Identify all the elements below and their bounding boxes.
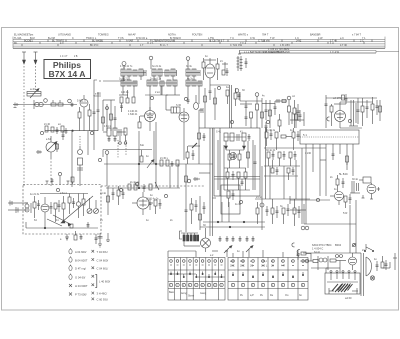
UKW cluster parts (222, 62, 229, 76)
AF detector cluster right (255, 199, 310, 230)
FM tuner dashed box (23, 185, 101, 235)
transformer hatch dark (338, 284, 353, 291)
svg-text:P LTS/MENTERDLNG: P LTS/MENTERDLNG (150, 40, 175, 43)
coupling coil L1 (34, 100, 43, 109)
IF transformer S4 (166, 107, 180, 113)
tuner top stubs (25, 181, 70, 203)
tuner mid cluster (40, 194, 88, 219)
svg-text:1 C 4 T: 1 C 4 T (60, 56, 68, 58)
svg-text:30C: 30C (240, 265, 245, 268)
wires from O to B4 (300, 144, 326, 210)
resistor R2 (51, 100, 63, 106)
B4 area extra drops (332, 144, 354, 176)
svg-text:21 40: 21 40 (44, 123, 51, 126)
svg-text:a1 4o: a1 4o (100, 192, 107, 195)
svg-text:TONREG: TONREG (98, 33, 109, 36)
parts below tuner box (60, 231, 98, 244)
wire callout to IF (99, 66, 124, 82)
svg-text:4 R: 4 R (281, 265, 285, 268)
svg-text:BC P D: BC P D (90, 44, 98, 47)
wire drops from IF row (123, 76, 199, 110)
svg-text:2 1: 2 1 (150, 42, 154, 45)
PSU right parts (376, 253, 398, 271)
cluster O row2 (264, 148, 300, 166)
wire v from tuner box to speaker bus (213, 198, 230, 222)
antenna A1 arrow (22, 52, 26, 90)
svg-text:4 240: 4 240 (305, 152, 312, 155)
lamp legend (69, 248, 110, 301)
mid band after box: vertical x108 (107, 186, 115, 215)
svg-text:BL WKBL: BL WKBL (92, 40, 103, 43)
title table (13, 37, 399, 53)
svg-text:C 04 600/: C 04 600/ (97, 258, 109, 262)
svg-text:S 30: S 30 (176, 104, 182, 107)
tube B10 (330, 192, 344, 206)
switch resistor bank (180, 231, 201, 246)
svg-text:2s 30 4s: 2s 30 4s (266, 129, 276, 132)
svg-text:2 C: 2 C (360, 40, 364, 43)
svg-text:T 04 60U: T 04 60U (97, 250, 108, 254)
svg-text:H 04 600T: H 04 600T (75, 284, 88, 288)
svg-text:B004: B004 (335, 243, 342, 247)
cluster under node 9 (256, 97, 259, 129)
table tick marks (22, 40, 372, 47)
svg-text:30 4o 21: 30 4o 21 (266, 149, 276, 152)
svg-text:D 4T mg/: D 4T mg/ (75, 267, 86, 271)
wire bus y164 (104, 163, 213, 165)
tube B8 EABC80 (132, 192, 153, 215)
FM coil right of B6 (237, 50, 248, 71)
clip symbol (297, 249, 300, 256)
AM osc coil cluster (103, 128, 127, 136)
table row2 dots (168, 273, 304, 277)
svg-text:24 C: 24 C (296, 40, 301, 43)
small parts under IF S1 (120, 90, 135, 112)
interconnect wires (119, 85, 326, 257)
svg-text:a4 60: a4 60 (345, 296, 352, 300)
PSU extra (303, 253, 352, 270)
ferrite rod coil a21 (27, 87, 41, 98)
right of box cluster O (265, 128, 300, 150)
vertical x156 (155, 122, 157, 188)
variable capacitor C1 (46, 136, 57, 158)
ratio box inner lines (214, 153, 260, 180)
wires above table (200, 221, 265, 228)
circled 189 (187, 177, 200, 183)
svg-text:A 04 600/: A 04 600/ (75, 250, 87, 254)
svg-text:4 T C: 4 T C (340, 44, 346, 47)
RC group on bus (160, 160, 179, 167)
tube B9 (367, 183, 380, 197)
oscillator cluster B2 (102, 100, 117, 131)
svg-text:TL MA: TL MA (14, 37, 22, 40)
small tube B5 (194, 99, 204, 113)
svg-text:64 41: 64 41 (314, 251, 321, 254)
svg-text:P T3 600/: P T3 600/ (75, 293, 87, 297)
svg-text:FOUTEN: FOUTEN (192, 33, 202, 36)
table circled numbers row (169, 283, 304, 286)
wire AM input bus (19, 104, 77, 106)
output parts right (333, 96, 379, 126)
tuner bottom wire (26, 222, 98, 229)
IF filter S2 row1 (152, 69, 177, 76)
svg-text:300 L: 300 L (261, 265, 268, 268)
resistor x141 mid (140, 150, 143, 162)
svg-text:4 C: 4 C (60, 42, 64, 45)
wire stubs top right (240, 101, 252, 110)
svg-text:a 64: a 64 (46, 138, 51, 141)
svg-text:21 30 s: 21 30 s (160, 157, 169, 160)
tube inner details (143, 112, 340, 207)
right mid cluster J (261, 98, 300, 128)
wire x186 connector (185, 164, 188, 196)
svg-text:4 W: 4 W (318, 37, 323, 40)
svg-text:a 21: a 21 (30, 87, 36, 91)
svg-text:1 640 41: 1 640 41 (128, 113, 138, 116)
svg-text:30 4o: 30 4o (352, 178, 359, 181)
IF filter S3 row1 (186, 69, 200, 76)
Philips nameplate (44, 60, 91, 79)
parts above tuner box (51, 172, 75, 184)
tuner diag switch (47, 215, 71, 226)
IF filter S1 row1 (121, 69, 146, 76)
svg-text:Aong: Aong (181, 292, 187, 295)
power supply section (303, 243, 397, 300)
bracket a605 (94, 80, 102, 96)
parts right of B8 (186, 146, 195, 164)
mains transformer box (325, 271, 360, 295)
PSU input parts (303, 256, 346, 265)
switch position table (168, 258, 308, 301)
svg-text:a 605: a 605 (95, 93, 102, 96)
bandswitch dashes mid (118, 140, 126, 158)
tone pot arrow 2 (246, 246, 253, 258)
wire h y95 row (119, 94, 180, 96)
svg-text:ML: ML (14, 42, 18, 45)
svg-text:C 60 93U: C 60 93U (97, 297, 108, 301)
ratio det lower RC (224, 140, 253, 190)
svg-text:T VS: T VS (118, 37, 124, 40)
detector cluster right (274, 96, 291, 125)
svg-text:3C: 3C (250, 265, 253, 268)
svg-text:3 H 46C/: 3 H 46C/ (97, 292, 108, 296)
svg-text:Bass: Bass (169, 291, 175, 294)
svg-text:1 4 004 C: 1 4 004 C (312, 247, 323, 251)
circled numbers text (170, 285, 304, 287)
B4 header box (300, 130, 359, 144)
box B3 inner extra (218, 140, 257, 190)
node 12 circled (105, 151, 109, 186)
right mid cluster extra rows (264, 160, 298, 180)
switch table row2 ticks (171, 272, 303, 279)
svg-text:4 711 41 7s: 4 711 41 7s (120, 65, 133, 68)
driver box U (359, 177, 371, 183)
densify pass (25, 66, 374, 288)
tube B4 AF711 (179, 108, 189, 131)
volume pot arrow 1 (224, 246, 232, 258)
junction mark y146 (188, 143, 200, 148)
wire h y128 top of box (199, 127, 214, 129)
capacitor bank C7 (93, 92, 100, 131)
tube B3 AF711 (138, 107, 156, 131)
tuner variable caps (87, 198, 99, 214)
caps below tuner box (98, 233, 111, 247)
svg-text:21 4o: 21 4o (256, 196, 263, 199)
svg-text:WHITE s: WHITE s (238, 33, 249, 36)
wire v x178-182 (170, 164, 178, 188)
svg-text:B 04 600T: B 04 600T (75, 258, 88, 262)
cap row above table (219, 236, 255, 242)
resistor x199 (198, 133, 206, 141)
svg-text:5L 84C: 5L 84C (339, 172, 348, 176)
svg-text:2 B: 2 B (74, 56, 78, 58)
svg-text:1 CB TW 6 T: 1 CB TW 6 T (210, 40, 225, 43)
mixer tube B1 cluster (78, 95, 91, 131)
mid band cluster x115-126 (117, 186, 125, 205)
wire v x262-302 connects (262, 148, 302, 224)
mains cable (326, 268, 340, 273)
svg-text:S 41: S 41 (216, 131, 222, 134)
wire v x320 (320, 144, 326, 196)
AF output parts Q (336, 175, 345, 192)
node 7 (68, 99, 72, 103)
svg-text:C: C (72, 37, 74, 40)
output stage top A4: tube B7 EL84 (330, 102, 346, 128)
detector wire h103 (262, 100, 275, 104)
svg-text:7 U: 7 U (230, 37, 234, 40)
tuning link dashed (101, 185, 205, 187)
text above right (263, 47, 290, 54)
svg-text:4o 21 3s: 4o 21 3s (30, 193, 40, 196)
rectifier tube B13 (349, 253, 357, 270)
svg-text:4s 2s: 4s 2s (187, 77, 194, 80)
antenna A2 arrow (34, 52, 38, 90)
wire v x210 under B6 (204, 85, 217, 128)
svg-text:B 1 L 7: B 1 L 7 (160, 44, 168, 47)
svg-text:T W: T W (270, 37, 275, 40)
vertical x199 (184, 110, 199, 164)
misc left bottom stubs (56, 131, 65, 152)
gang dashed link 2 (50, 158, 52, 186)
svg-text:3s 3s: 3s 3s (186, 65, 193, 68)
callout above S2 (149, 56, 153, 69)
wire h149 (103, 150, 152, 158)
wire bus y188 (106, 187, 180, 189)
speaker field coil arc (366, 257, 375, 280)
svg-text:Gang: Gang (200, 292, 207, 295)
svg-text:140 4o: 140 4o (121, 91, 129, 94)
small text under table left (60, 56, 78, 58)
wire v x306 (290, 210, 306, 224)
svg-text:a C: a C (340, 37, 344, 40)
UKW tube B6 ECC85 (202, 58, 219, 85)
grounds under B9 (362, 195, 374, 199)
wire v x154 drop (154, 86, 161, 164)
vertical bus pair x210 (199, 128, 213, 236)
vertical bus pair mid (210, 85, 232, 128)
parts right of tube B8 (149, 198, 162, 214)
svg-text:4 61 1: 4 61 1 (104, 125, 111, 128)
IF filter S3 row2 (186, 80, 202, 86)
fuse symbol (352, 243, 356, 246)
value labels scatter (30, 55, 377, 261)
tuner input coil (25, 196, 40, 218)
vertical x266 (265, 128, 267, 199)
mid cluster M1 (226, 88, 241, 106)
wire bottom bus y251 (168, 251, 196, 257)
callout above S3 (186, 57, 190, 69)
node 1 circled (122, 62, 126, 69)
gang dashed link (23, 92, 25, 186)
sub box above speaker (221, 185, 240, 214)
densify pass 2 (22, 40, 382, 291)
IF filter S1 row2 (121, 80, 137, 86)
svg-text:784 T: 784 T (262, 33, 269, 36)
PSU switch contacts (364, 244, 373, 252)
svg-text:30C: 30C (230, 265, 235, 268)
svg-text:Stero: Stero (188, 295, 195, 298)
tuner parts group1 (50, 196, 66, 222)
ratio det coil T1 (224, 133, 251, 141)
svg-text:1 B 1 BV: 1 B 1 BV (280, 44, 290, 47)
electrolytic pair C60 (350, 181, 360, 193)
svg-text:1 T: 1 T (140, 44, 144, 47)
pot arrow on bus (147, 160, 154, 169)
tuner tube B11 (41, 197, 49, 228)
long wire y200 left of B10 (290, 196, 330, 204)
cluster left of x210 bus (185, 196, 206, 232)
svg-text:a,P: a,P (250, 294, 254, 297)
FM aerial input (8, 201, 28, 214)
AM aerial connector (13, 103, 19, 108)
svg-text:EL MAGNEETjes: EL MAGNEETjes (14, 33, 34, 36)
svg-text:2 61 4: 2 61 4 (60, 192, 67, 195)
svg-text:G 04 60/: G 04 60/ (75, 276, 86, 280)
speaker feed box bottom (304, 200, 356, 253)
electrolytic C40 bars (349, 100, 358, 126)
svg-text:BANDBR: BANDBR (310, 33, 321, 36)
svg-text:5 R: 5 R (343, 211, 347, 215)
horizontal bus y131 (45, 130, 98, 132)
node 6 (44, 99, 48, 103)
ratio detector box (214, 128, 260, 196)
svg-text:C 04 60L/: C 04 60L/ (97, 267, 109, 271)
svg-text:2o 4s 6 2s: 2o 4s 6 2s (150, 77, 162, 80)
PSU left small parts (292, 243, 311, 260)
detector extra cluster (245, 108, 330, 132)
svg-text:1 C 4 W: 1 C 4 W (330, 51, 340, 54)
wires under switch table (212, 250, 283, 258)
AM/FM switch cluster (128, 182, 159, 192)
svg-text:a 3 2 GEFRBNITBAND: a 3 2 GEFRBNITBAND (263, 50, 290, 54)
EL84 cluster extra (325, 94, 382, 128)
table bottom row labels (169, 291, 302, 298)
PSU text labels (312, 243, 342, 251)
svg-text:5 1: 5 1 (303, 133, 307, 137)
svg-text:C W: C W (250, 37, 256, 40)
svg-text:L 40 600/: L 40 600/ (99, 280, 110, 284)
svg-text:6Z04 6T04 TB04: 6Z04 6T04 TB04 (312, 243, 332, 247)
svg-text:1 4: 1 4 (330, 42, 334, 45)
AM coil cluster lower ticks (108, 135, 127, 144)
svg-text:64o: 64o (140, 144, 145, 147)
parts below B10 (344, 194, 352, 208)
svg-text:B7X 14 A: B7X 14 A (49, 69, 86, 79)
RC group row B1 (45, 126, 73, 134)
svg-text:BCD 21: BCD 21 (24, 40, 33, 43)
left edge small parts y155 (36, 150, 42, 154)
transformer winding hatch (332, 284, 350, 292)
svg-text:30 21 4o 2s: 30 21 4o 2s (146, 198, 159, 201)
svg-text:NOTA t: NOTA t (168, 33, 176, 36)
table cell symbols row1 (170, 260, 223, 265)
svg-text:A VAR: A VAR (126, 40, 133, 43)
title table text (14, 33, 366, 53)
speaker LS (201, 228, 211, 252)
diag lever in tuner (61, 196, 93, 223)
switch table right cells symbols (232, 260, 305, 266)
IF row midlines (123, 69, 200, 86)
svg-text:s 7 84 T: s 7 84 T (352, 33, 361, 36)
callout rings (40, 86, 351, 203)
PSU vertical bus (352, 253, 364, 296)
svg-text:C TLN CW: C TLN CW (230, 44, 243, 47)
svg-text:2 a1: 2 a1 (155, 91, 160, 94)
svg-text:UITGAAND: UITGAAND (58, 33, 71, 36)
vertical wires left block (72, 131, 94, 187)
trimmer chain mid-left (77, 136, 83, 186)
ratio det diodes (225, 141, 246, 150)
vertical x139 (138, 131, 140, 188)
capacitor C4 (71, 103, 74, 108)
node 9 circled (255, 93, 259, 97)
ratio det RC mid (224, 150, 246, 168)
svg-text:AM-AF: AM-AF (128, 33, 136, 36)
wire h 101 (240, 92, 262, 101)
svg-text:3o 21 4s: 3o 21 4s (152, 65, 162, 68)
IF filter S2 row2 (147, 80, 177, 86)
extra wires top mid (166, 95, 196, 110)
